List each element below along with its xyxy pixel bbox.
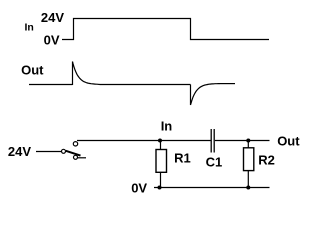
switch SW1 lower contact terminal [74, 155, 78, 159]
resistor R1 [156, 150, 167, 173]
svg-text:0V: 0V [44, 33, 60, 48]
wire 24V to switch common [36, 151, 61, 153]
switch SW1 lever [66, 151, 81, 156]
wire output waveform negative spike with exponential recovery [191, 84, 221, 105]
svg-text:24V: 24V [41, 10, 64, 25]
svg-text:0V: 0V [131, 181, 147, 196]
svg-text:In: In [161, 118, 173, 133]
svg-text:24V: 24V [8, 144, 31, 159]
node Out junction dot [246, 139, 250, 143]
wire output waveform baseline left [29, 84, 73, 86]
capacitor C1 right plate [213, 129, 215, 153]
wire In node to R1 [160, 141, 162, 150]
node In junction dot [158, 139, 162, 143]
wire upper contact to In rail [77, 140, 211, 142]
svg-text:In: In [25, 22, 34, 34]
wire lower contact stub [78, 157, 86, 159]
svg-text:R2: R2 [258, 153, 275, 168]
wire output waveform baseline middle [100, 84, 191, 86]
resistor R2 [244, 148, 254, 171]
wire input waveform square pulse [62, 19, 269, 40]
wire R2 to 0V rail [247, 171, 249, 188]
wire output waveform baseline right [220, 83, 235, 85]
wire output waveform positive spike with exponential decay [73, 62, 101, 86]
switch SW1 common terminal [62, 149, 66, 153]
wire Out node to R2 [247, 141, 249, 148]
wire C1 to Out node [215, 140, 270, 142]
switch SW1 upper contact terminal [73, 142, 77, 146]
node R2-0V junction dot [246, 186, 250, 190]
capacitor C1 left plate [210, 129, 212, 153]
wire R1 to 0V rail [160, 172, 162, 187]
svg-text:Out: Out [277, 134, 300, 149]
svg-text:C1: C1 [206, 155, 223, 170]
wire 0V rail [154, 187, 270, 189]
svg-text:Out: Out [21, 62, 44, 77]
svg-text:R1: R1 [174, 151, 191, 166]
node R1-0V junction dot [158, 186, 162, 190]
